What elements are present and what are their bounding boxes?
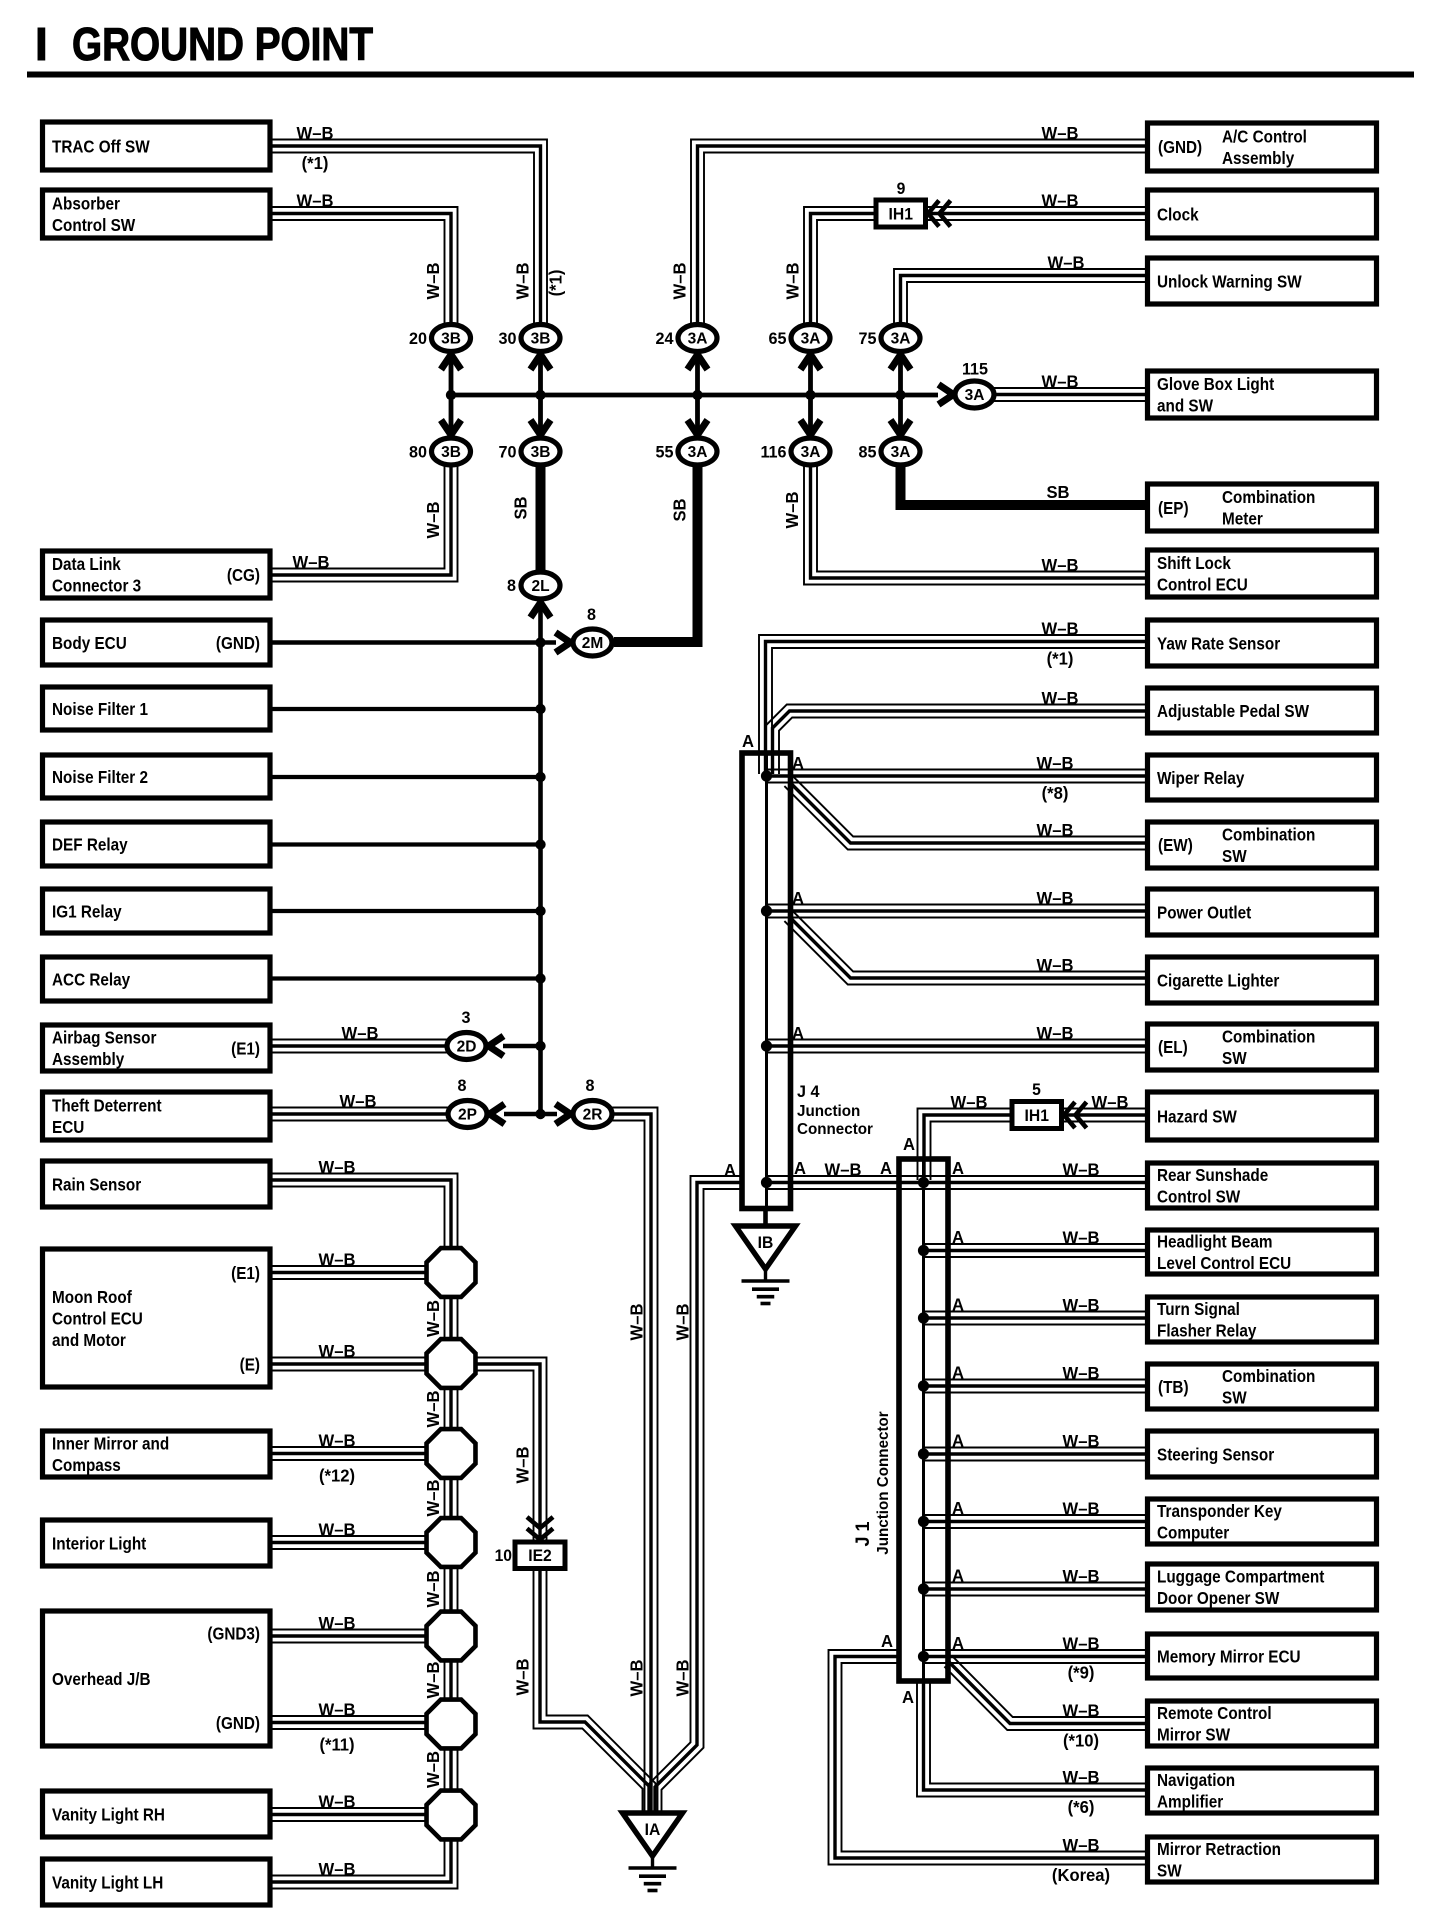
svg-text:Data Link: Data Link — [52, 554, 121, 574]
arrow into connector 2M — [556, 633, 571, 653]
block Steering Sensor — [1148, 1431, 1377, 1477]
svg-text:W–B: W–B — [424, 502, 443, 539]
block Interior Light — [43, 1520, 271, 1566]
svg-text:3B: 3B — [441, 444, 461, 461]
block Navigation Amplifier — [1148, 1768, 1377, 1813]
svg-text:W–B: W–B — [319, 1700, 356, 1719]
svg-text:(*1): (*1) — [546, 270, 565, 297]
wire Hazard SW (W-B) via IH1 to J1 — [918, 1109, 1148, 1181]
ground IB — [736, 1226, 796, 1269]
wire IG1 Relay — [270, 909, 541, 913]
block Memory Mirror ECU — [1148, 1634, 1377, 1678]
svg-text:Combination: Combination — [1222, 824, 1315, 844]
wire Combination SW (EW) from J4 — [784, 786, 1147, 849]
svg-text:A: A — [792, 889, 804, 908]
connector 2M — [573, 629, 612, 656]
wire Vanity Light LH (W-B) — [270, 1834, 458, 1889]
block Transponder Key Computer — [1148, 1499, 1377, 1544]
block Combination SW (TB) — [1148, 1364, 1377, 1409]
svg-text:(GND3): (GND3) — [207, 1623, 260, 1643]
svg-text:3A: 3A — [801, 444, 821, 461]
block Inner Mirror and Compass — [43, 1431, 271, 1477]
svg-text:W–B: W–B — [424, 1480, 443, 1517]
block Combination Meter (EP) — [1148, 484, 1377, 531]
svg-text:A: A — [952, 1431, 964, 1450]
svg-text:Assembly: Assembly — [1222, 148, 1295, 168]
block Remote Control Mirror SW — [1148, 1701, 1377, 1746]
svg-text:W–B: W–B — [342, 1024, 379, 1043]
wire Absorber Control SW (W-B) to connector 20 3B — [270, 220, 445, 326]
block Combination SW (EL) — [1148, 1024, 1377, 1070]
svg-text:W–B: W–B — [513, 263, 532, 300]
svg-text:24: 24 — [656, 329, 675, 348]
block Body ECU (GND) — [43, 620, 271, 665]
svg-text:W–B: W–B — [951, 1093, 988, 1112]
svg-text:3A: 3A — [891, 444, 911, 461]
svg-text:A: A — [880, 1159, 892, 1178]
svg-text:Rain Sensor: Rain Sensor — [52, 1174, 142, 1194]
svg-text:(*9): (*9) — [1068, 1663, 1095, 1682]
svg-text:Memory Mirror ECU: Memory Mirror ECU — [1157, 1646, 1301, 1666]
svg-text:(Korea): (Korea) — [1052, 1866, 1110, 1885]
svg-text:8: 8 — [587, 605, 596, 624]
svg-text:(E): (E) — [240, 1354, 260, 1374]
svg-text:W–B: W–B — [297, 124, 334, 143]
block Shift Lock Control ECU — [1148, 550, 1377, 597]
svg-text:Control ECU: Control ECU — [1157, 574, 1248, 594]
block Theft Deterrent ECU — [43, 1092, 271, 1140]
wire Adjustable Pedal SW (W-B) to J4 — [766, 705, 1148, 775]
svg-text:W–B: W–B — [1063, 1432, 1100, 1451]
connector 20 3B — [432, 325, 471, 352]
svg-text:Inner Mirror and: Inner Mirror and — [52, 1433, 169, 1453]
svg-text:3A: 3A — [801, 331, 821, 348]
svg-text:Vanity Light LH: Vanity Light LH — [52, 1872, 163, 1892]
svg-text:20: 20 — [409, 329, 427, 348]
thick SB wire connector 55 3A to connector 2M — [614, 463, 698, 643]
svg-text:W–B: W–B — [1037, 1024, 1074, 1043]
svg-text:(E1): (E1) — [231, 1263, 260, 1283]
svg-text:3A: 3A — [891, 331, 911, 348]
svg-text:Noise Filter 2: Noise Filter 2 — [52, 767, 148, 787]
svg-text:W–B: W–B — [319, 1158, 356, 1177]
svg-text:W–B: W–B — [627, 1660, 646, 1697]
svg-text:Clock: Clock — [1157, 204, 1199, 224]
wire octagon splice via IE2 down to ground IA — [470, 1371, 643, 1814]
svg-text:9: 9 — [897, 180, 906, 198]
svg-text:W–B: W–B — [319, 1342, 356, 1361]
svg-text:GROUND POINT: GROUND POINT — [72, 18, 373, 70]
svg-text:IH1: IH1 — [889, 205, 913, 223]
block Power Outlet — [1148, 889, 1377, 935]
wire Combination SW (EL) from J4 pin A — [767, 1052, 1148, 1054]
stem J4 to ground IB — [763, 1206, 768, 1228]
svg-text:W–B: W–B — [1063, 1296, 1100, 1315]
svg-text:A: A — [952, 1566, 964, 1585]
svg-text:Moon Roof: Moon Roof — [52, 1287, 132, 1307]
svg-text:W–B: W–B — [1092, 1093, 1129, 1112]
svg-text:115: 115 — [962, 359, 988, 378]
connector 2L — [521, 572, 560, 599]
svg-text:A: A — [794, 1159, 806, 1178]
block Clock — [1148, 190, 1377, 238]
svg-text:10: 10 — [495, 1547, 512, 1565]
svg-text:W–B: W–B — [783, 492, 802, 529]
svg-text:Remote Control: Remote Control — [1157, 1703, 1272, 1723]
svg-text:W–B: W–B — [1063, 1768, 1100, 1787]
svg-text:Navigation: Navigation — [1157, 1770, 1235, 1790]
svg-text:A: A — [903, 1135, 915, 1154]
wire Glove Box Light and SW (W-B) from connector 115 3A — [992, 400, 1148, 402]
svg-text:Yaw Rate Sensor: Yaw Rate Sensor — [1157, 633, 1281, 653]
wire from connector 2R down to ground IA — [611, 1121, 645, 1814]
svg-text:(*12): (*12) — [319, 1466, 355, 1485]
wire Inner Mirror and Compass (W-B) — [270, 1459, 432, 1461]
wire Moon Roof (E1) to octagon splice — [270, 1278, 432, 1280]
octagon splice 5 — [427, 1612, 476, 1661]
wire Navigation Amplifier (W-B) from J1 bottom — [917, 1679, 1148, 1797]
svg-text:(E1): (E1) — [231, 1038, 260, 1058]
svg-text:2M: 2M — [582, 635, 604, 652]
svg-text:Rear Sunshade: Rear Sunshade — [1157, 1165, 1268, 1185]
block Combination SW (EW) — [1148, 822, 1377, 868]
svg-text:Body ECU: Body ECU — [52, 633, 127, 653]
wire Data Link Connector 3 (W-B) to connector 80 3B — [270, 464, 458, 582]
wire TRAC Off SW (W-B) to connector 30 3B — [270, 153, 534, 327]
svg-text:3A: 3A — [965, 387, 985, 404]
connector 2D — [447, 1033, 486, 1060]
svg-text:A: A — [952, 1634, 964, 1653]
svg-text:3A: 3A — [688, 331, 708, 348]
svg-text:SB: SB — [1046, 483, 1069, 502]
svg-text:Hazard SW: Hazard SW — [1157, 1106, 1237, 1126]
svg-text:W–B: W–B — [627, 1304, 646, 1341]
svg-text:W–B: W–B — [319, 1614, 356, 1633]
svg-text:and SW: and SW — [1157, 395, 1213, 415]
wire Yaw Rate Sensor (W-B) to J4 — [759, 635, 1148, 774]
svg-text:75: 75 — [859, 329, 877, 348]
svg-text:A: A — [792, 1024, 804, 1043]
svg-text:(EW): (EW) — [1158, 835, 1193, 855]
connector 65 3A — [791, 325, 830, 352]
wire Interior Light (W-B) — [270, 1548, 432, 1550]
svg-text:Theft Deterrent: Theft Deterrent — [52, 1095, 162, 1115]
svg-text:5: 5 — [1032, 1081, 1041, 1099]
svg-text:W–B: W–B — [340, 1092, 377, 1111]
octagon splice 6 — [427, 1700, 476, 1749]
svg-text:I: I — [35, 18, 48, 70]
svg-text:8: 8 — [458, 1076, 467, 1095]
svg-text:Flasher Relay: Flasher Relay — [1157, 1320, 1257, 1340]
svg-text:Computer: Computer — [1157, 1522, 1230, 1542]
svg-text:A: A — [952, 1228, 964, 1247]
wire Noise Filter 2 — [270, 775, 541, 779]
svg-text:Door Opener SW: Door Opener SW — [1157, 1588, 1280, 1608]
connector 55 3A — [678, 438, 717, 465]
stub to connector 2P — [504, 1112, 541, 1117]
svg-text:and Motor: and Motor — [52, 1330, 126, 1350]
svg-text:W–B: W–B — [424, 1391, 443, 1428]
block Overhead J/B — [43, 1611, 271, 1746]
svg-text:65: 65 — [769, 329, 787, 348]
svg-text:Overhead J/B: Overhead J/B — [52, 1669, 151, 1689]
wire Noise Filter 1 — [270, 707, 541, 711]
svg-text:55: 55 — [656, 442, 674, 461]
svg-text:ECU: ECU — [52, 1117, 84, 1137]
svg-text:TRAC Off SW: TRAC Off SW — [52, 136, 150, 156]
svg-text:Adjustable Pedal SW: Adjustable Pedal SW — [1157, 701, 1309, 721]
connector stems with arrows — [449, 349, 454, 395]
block Yaw Rate Sensor — [1148, 620, 1377, 666]
svg-text:ACC Relay: ACC Relay — [52, 969, 131, 989]
svg-text:3A: 3A — [688, 444, 708, 461]
wire Vanity Light RH (W-B) — [270, 1820, 432, 1822]
svg-text:W–B: W–B — [1063, 1160, 1100, 1179]
svg-text:Noise Filter 1: Noise Filter 1 — [52, 699, 148, 719]
connector 24 3A — [678, 325, 717, 352]
connector IE2 (pin 10) — [527, 1517, 553, 1528]
connector IH1 (Clock, pin 9) — [876, 200, 926, 227]
wire Wiper Relay (W-B) from J4 pin A — [767, 782, 1148, 784]
svg-text:(*8): (*8) — [1042, 784, 1069, 803]
svg-text:W–B: W–B — [1037, 821, 1074, 840]
block Glove Box Light and SW — [1148, 371, 1377, 418]
svg-text:W–B: W–B — [1042, 124, 1079, 143]
svg-text:Mirror SW: Mirror SW — [1157, 1724, 1230, 1744]
svg-text:W–B: W–B — [319, 1520, 356, 1539]
svg-text:Mirror Retraction: Mirror Retraction — [1157, 1839, 1281, 1859]
svg-text:(TB): (TB) — [1158, 1377, 1189, 1397]
thick SB wire connector 85 3A to Combination Meter (EP) — [901, 463, 1148, 506]
connector 2P — [448, 1101, 487, 1128]
block TRAC Off SW — [43, 122, 271, 170]
svg-text:W–B: W–B — [1037, 889, 1074, 908]
svg-text:W–B: W–B — [1042, 191, 1079, 210]
svg-text:Control SW: Control SW — [1157, 1186, 1240, 1206]
block Absorber Control SW — [43, 190, 271, 238]
wire Theft Deterrent ECU (W-B) to connector 2P — [270, 1120, 453, 1122]
svg-text:Power Outlet: Power Outlet — [1157, 902, 1252, 922]
wire Power Outlet (W-B) from J4 pin A — [767, 917, 1148, 919]
svg-text:Headlight Beam: Headlight Beam — [1157, 1231, 1273, 1251]
svg-text:W–B: W–B — [1042, 619, 1079, 638]
block Headlight Beam Level Control ECU — [1148, 1230, 1377, 1274]
svg-text:2R: 2R — [583, 1107, 603, 1124]
svg-text:Absorber: Absorber — [52, 193, 120, 213]
svg-text:(GND): (GND) — [1158, 137, 1202, 157]
stub to connector 2D — [503, 1044, 541, 1049]
wire Body ECU (GND) to connector 2M — [270, 640, 556, 645]
svg-text:Control ECU: Control ECU — [52, 1308, 143, 1328]
svg-text:W–B: W–B — [673, 1304, 692, 1341]
J1 pin A wires to right boxes — [924, 1256, 1148, 1258]
octagon splice 4 — [427, 1518, 476, 1567]
svg-text:Luggage Compartment: Luggage Compartment — [1157, 1566, 1325, 1586]
svg-text:J 1: J 1 — [852, 1521, 874, 1546]
svg-text:3B: 3B — [531, 331, 551, 348]
wire Shift Lock Control ECU (W-B) from connector 116 3A — [804, 464, 1148, 585]
svg-text:A: A — [902, 1688, 914, 1707]
arrow into connector 2R — [556, 1104, 571, 1124]
svg-text:A: A — [952, 1295, 964, 1314]
connector 116 3A — [791, 438, 830, 465]
svg-text:W–B: W–B — [1048, 253, 1085, 272]
svg-text:(GND): (GND) — [216, 1713, 260, 1733]
svg-text:2L: 2L — [531, 578, 549, 595]
svg-text:(*6): (*6) — [1068, 1798, 1095, 1817]
svg-text:W–B: W–B — [424, 1751, 443, 1788]
block Rain Sensor — [43, 1161, 271, 1207]
svg-text:A: A — [952, 1363, 964, 1382]
svg-text:SB: SB — [670, 498, 689, 521]
svg-text:Cigarette Lighter: Cigarette Lighter — [1157, 970, 1280, 990]
svg-text:W–B: W–B — [1037, 754, 1074, 773]
svg-text:W–B: W–B — [1063, 1499, 1100, 1518]
block Adjustable Pedal SW — [1148, 688, 1377, 733]
arrow into connector 2L — [531, 603, 551, 618]
wire Clock (W-B) via IH1 to connector 65 3A — [817, 220, 1148, 326]
svg-text:A: A — [724, 1161, 736, 1180]
wire Overhead J/B (GND3) — [270, 1642, 432, 1644]
svg-text:Glove Box Light: Glove Box Light — [1157, 374, 1275, 394]
svg-text:W–B: W–B — [513, 1659, 532, 1696]
svg-text:W–B: W–B — [1042, 372, 1079, 391]
svg-text:(*11): (*11) — [319, 1735, 354, 1754]
connector IH1 (Hazard, pin 5) — [1012, 1102, 1062, 1129]
svg-text:J 4: J 4 — [797, 1082, 820, 1101]
svg-text:W–B: W–B — [1063, 1228, 1100, 1247]
bus line between ground connectors — [451, 393, 938, 398]
svg-text:W–B: W–B — [424, 1300, 443, 1337]
svg-text:W–B: W–B — [670, 263, 689, 300]
svg-text:W–B: W–B — [424, 1571, 443, 1608]
arrows into ground connectors — [441, 355, 461, 370]
svg-text:Combination: Combination — [1222, 1366, 1315, 1386]
stub to connector 2R — [541, 1112, 558, 1117]
svg-text:(*1): (*1) — [302, 154, 329, 173]
svg-text:(EL): (EL) — [1158, 1037, 1188, 1057]
svg-text:116: 116 — [760, 442, 786, 461]
block Cigarette Lighter — [1148, 957, 1377, 1003]
octagon splice 7 — [427, 1791, 476, 1840]
svg-text:Connector 3: Connector 3 — [52, 575, 141, 595]
svg-text:A: A — [952, 1499, 964, 1518]
svg-text:2D: 2D — [457, 1039, 477, 1056]
block Turn Signal Flasher Relay — [1148, 1297, 1377, 1342]
wire Overhead J/B (GND) — [270, 1728, 432, 1730]
svg-text:W–B: W–B — [319, 1250, 356, 1269]
svg-text:W–B: W–B — [783, 263, 802, 300]
ground IA — [623, 1813, 683, 1856]
arrow into connector 2D — [489, 1036, 504, 1056]
svg-text:Turn Signal: Turn Signal — [1157, 1299, 1240, 1319]
block Hazard SW — [1148, 1092, 1377, 1140]
svg-text:Control SW: Control SW — [52, 215, 135, 235]
svg-text:8: 8 — [507, 576, 516, 595]
svg-text:Meter: Meter — [1222, 508, 1263, 528]
wire A/C Control Assembly (W-B) to connector 24 3A — [691, 140, 1148, 327]
junction connector J4 — [742, 753, 791, 1209]
svg-text:IG1 Relay: IG1 Relay — [52, 901, 122, 921]
svg-text:3: 3 — [462, 1008, 471, 1027]
svg-text:80: 80 — [409, 442, 427, 461]
svg-text:W–B: W–B — [297, 191, 334, 210]
svg-text:W–B: W–B — [673, 1660, 692, 1697]
svg-text:85: 85 — [859, 442, 877, 461]
svg-text:(EP): (EP) — [1158, 498, 1189, 518]
block Unlock Warning SW — [1148, 258, 1377, 304]
svg-text:W–B: W–B — [1042, 556, 1079, 575]
svg-text:8: 8 — [586, 1076, 595, 1095]
connector 80 3B — [432, 438, 471, 465]
wire Moon Roof (E) to octagon splice — [270, 1370, 432, 1372]
svg-text:A: A — [742, 732, 754, 751]
wire Mirror Retraction SW (Korea) from J1 left pin A — [829, 1650, 1148, 1865]
svg-text:W–B: W–B — [319, 1431, 356, 1450]
svg-text:SW: SW — [1222, 846, 1247, 866]
svg-text:3B: 3B — [441, 331, 461, 348]
octagon splice 3 — [427, 1429, 476, 1478]
svg-text:IH1: IH1 — [1025, 1106, 1049, 1124]
connector 2R — [573, 1101, 612, 1128]
svg-text:W–B: W–B — [1063, 1567, 1100, 1586]
connector 85 3A — [881, 438, 920, 465]
junction dots on bus — [446, 390, 456, 400]
svg-text:IE2: IE2 — [528, 1547, 552, 1565]
block Vanity Light LH — [43, 1859, 271, 1905]
svg-text:W–B: W–B — [424, 263, 443, 300]
svg-text:3B: 3B — [531, 444, 551, 461]
block Vanity Light RH — [43, 1791, 271, 1837]
wire ACC Relay — [270, 976, 541, 980]
svg-text:Interior Light: Interior Light — [52, 1533, 147, 1553]
svg-text:2P: 2P — [458, 1107, 477, 1124]
svg-text:(*1): (*1) — [1047, 649, 1074, 668]
svg-text:Junction: Junction — [797, 1103, 860, 1120]
wire Cigarette Lighter (W-B) from J4 — [784, 921, 1147, 984]
svg-text:Combination: Combination — [1222, 487, 1315, 507]
svg-text:A: A — [792, 754, 804, 773]
svg-text:W–B: W–B — [1063, 1701, 1100, 1720]
block Moon Roof Control ECU and Motor — [43, 1249, 271, 1387]
svg-text:W–B: W–B — [293, 553, 330, 572]
block Airbag Sensor Assembly (E1) — [43, 1025, 271, 1071]
svg-text:W–B: W–B — [1042, 689, 1079, 708]
svg-text:W–B: W–B — [825, 1160, 862, 1179]
svg-text:W–B: W–B — [1063, 1364, 1100, 1383]
svg-text:Amplifier: Amplifier — [1157, 1791, 1224, 1811]
svg-text:W–B: W–B — [1063, 1634, 1100, 1653]
svg-text:Compass: Compass — [52, 1455, 121, 1475]
svg-text:SB: SB — [511, 496, 530, 519]
svg-text:Wiper Relay: Wiper Relay — [1157, 768, 1245, 788]
svg-text:A: A — [881, 1632, 893, 1651]
connector 70 3B — [521, 438, 560, 465]
svg-text:(*10): (*10) — [1063, 1731, 1099, 1750]
svg-text:Airbag Sensor: Airbag Sensor — [52, 1027, 157, 1047]
svg-text:Junction Connector: Junction Connector — [875, 1411, 892, 1554]
octagon splice 2 — [427, 1339, 476, 1388]
svg-text:IA: IA — [645, 1821, 661, 1839]
svg-text:30: 30 — [499, 329, 517, 348]
wire Airbag Sensor Assembly (W-B) to connector 2D — [270, 1052, 452, 1054]
svg-text:W–B: W–B — [1037, 956, 1074, 975]
block ACC Relay — [43, 957, 271, 1001]
svg-text:Level Control ECU: Level Control ECU — [1157, 1253, 1291, 1273]
connector 75 3A — [881, 325, 920, 352]
svg-text:(GND): (GND) — [216, 633, 260, 653]
svg-text:Unlock Warning SW: Unlock Warning SW — [1157, 271, 1302, 291]
